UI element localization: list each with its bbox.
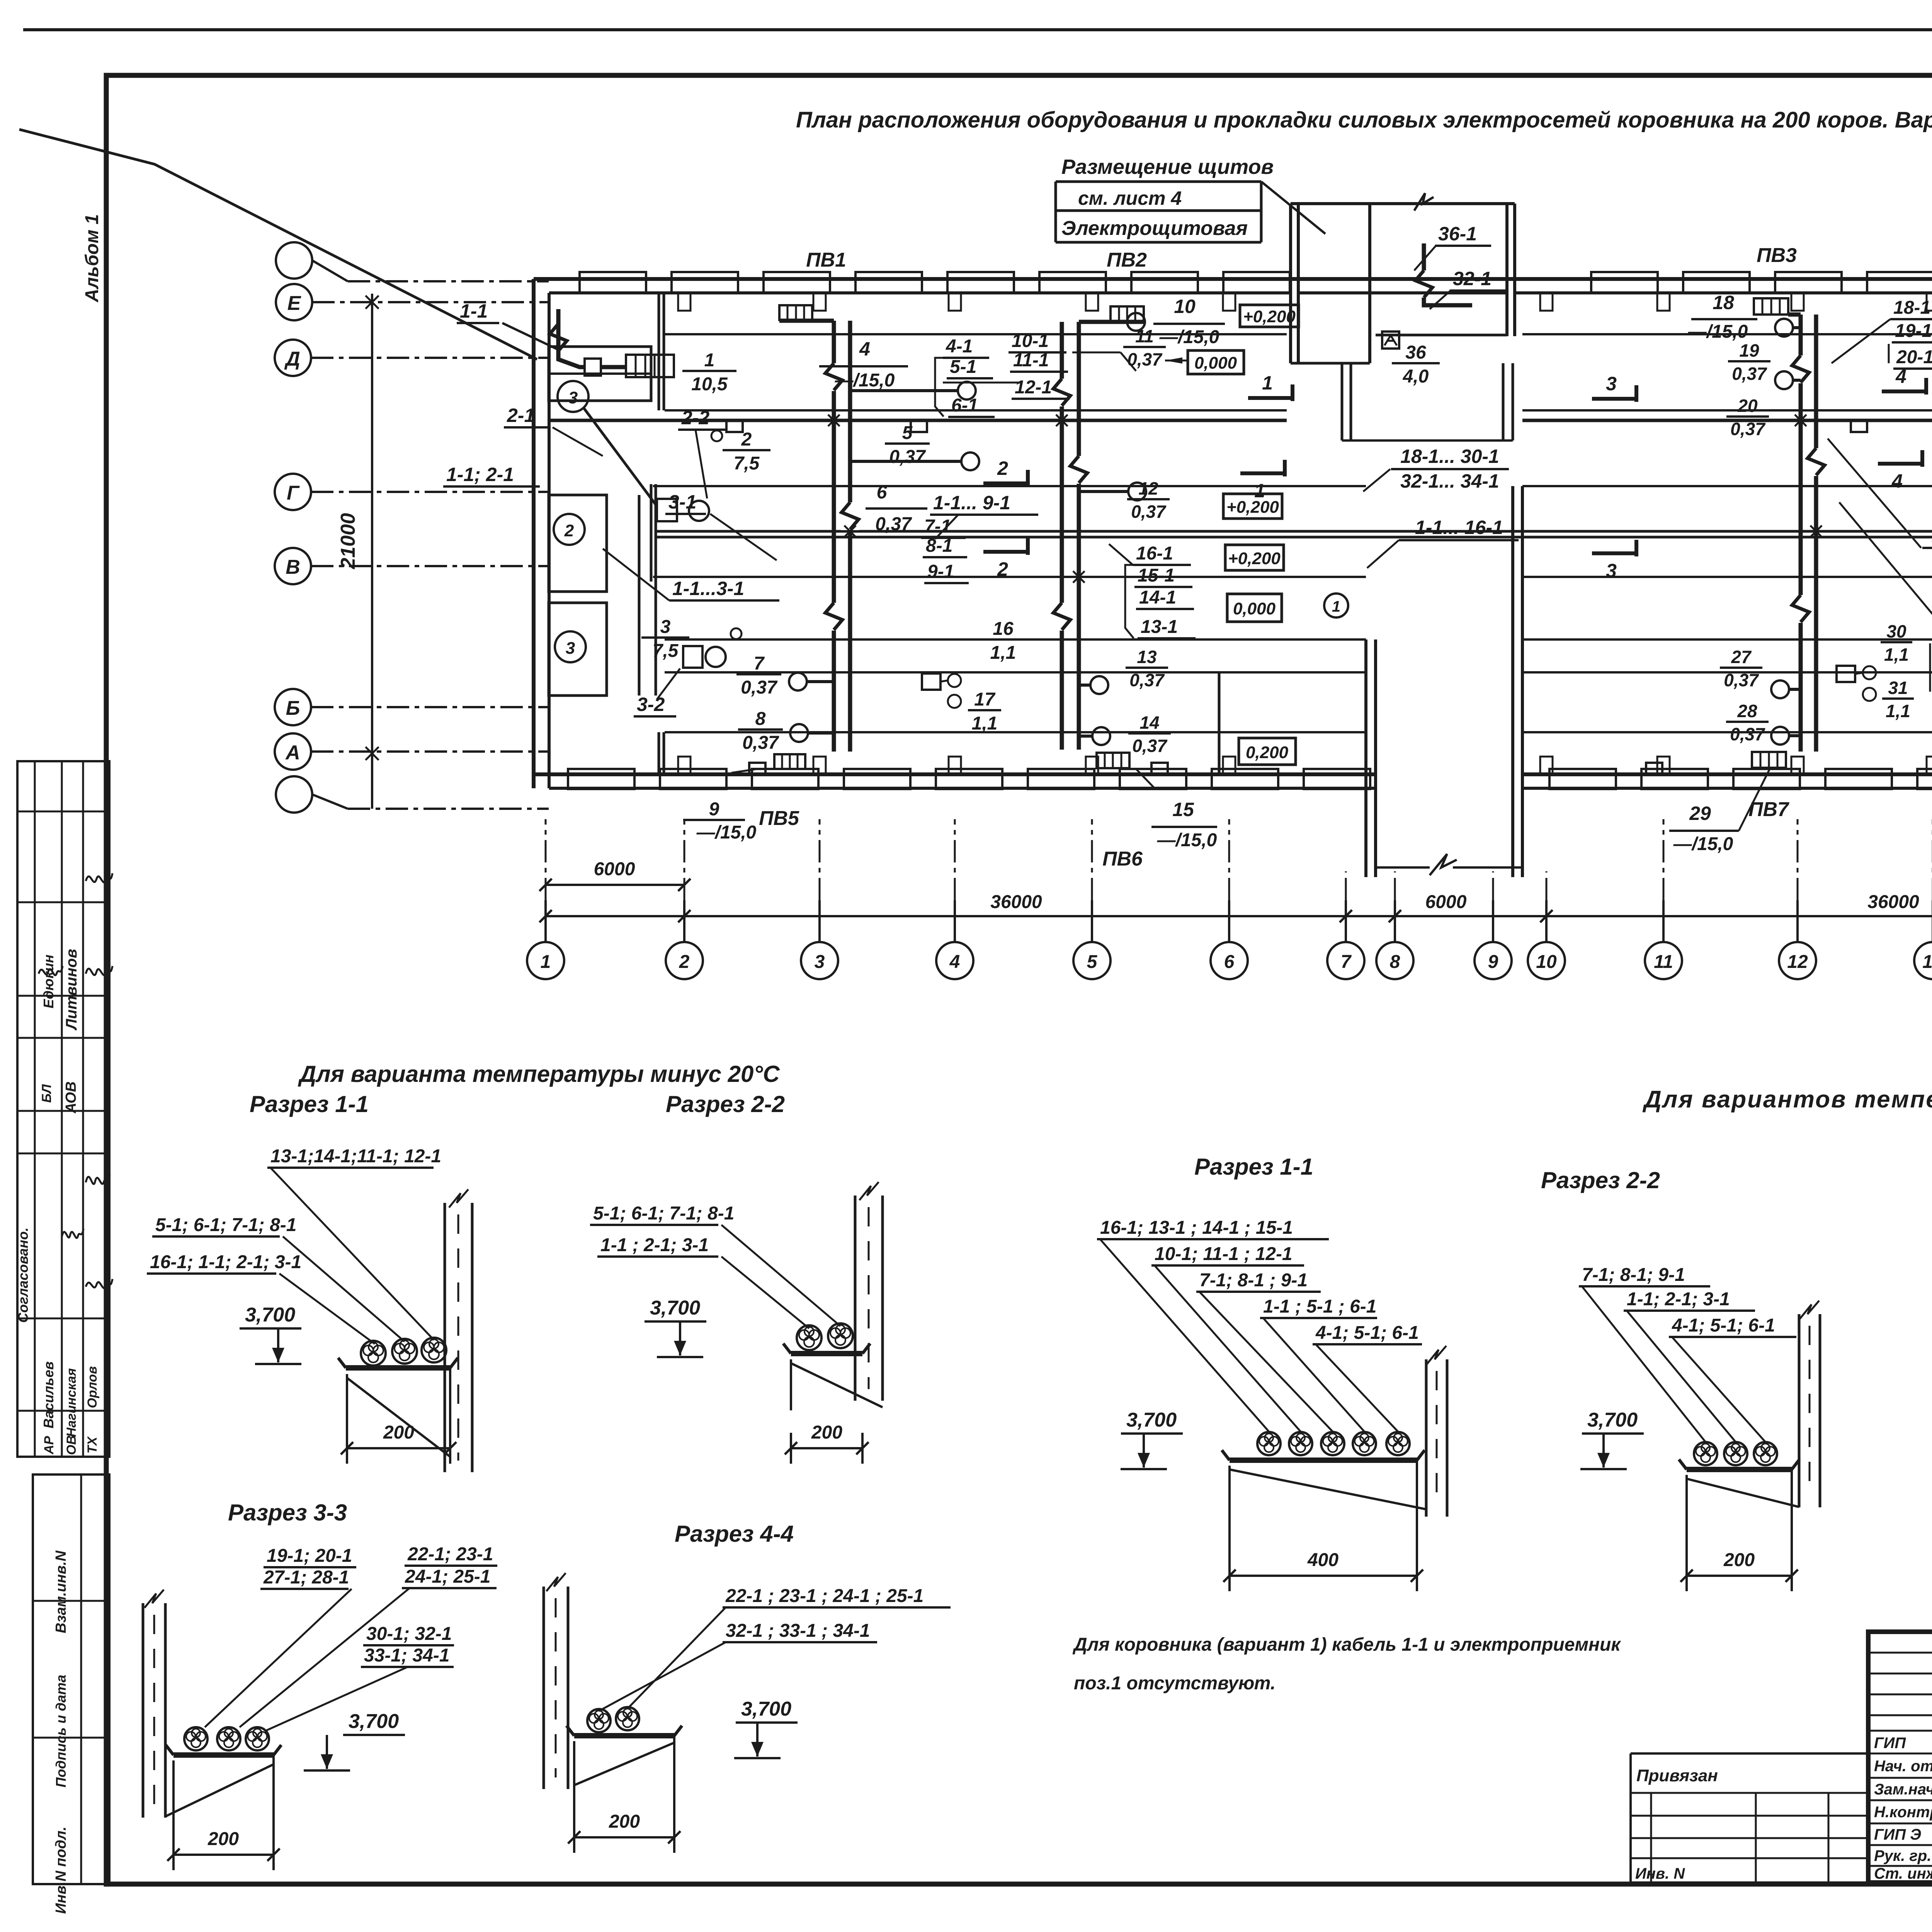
row axis bubbles <box>276 242 312 279</box>
section 1-1 left bracket outline <box>346 1374 348 1454</box>
svg-text:10,5: 10,5 <box>691 374 728 395</box>
svg-text:2: 2 <box>679 952 690 972</box>
svg-text:План расположения оборудовани: План расположения оборудования и проклад… <box>796 107 1932 133</box>
panel box PV5 <box>774 754 805 769</box>
motor 13 <box>1090 676 1108 694</box>
svg-text:15-1: 15-1 <box>1138 565 1175 586</box>
svg-text:1,1: 1,1 <box>1884 645 1909 665</box>
svg-text:Разрез 1-1: Разрез 1-1 <box>250 1091 369 1117</box>
svg-text:36000: 36000 <box>1867 892 1919 912</box>
interior line y1088 right barn <box>1522 419 1932 422</box>
svg-text:—/15,0: —/15,0 <box>835 370 895 391</box>
svg-text:Электрощитовая: Электрощитовая <box>1061 217 1248 240</box>
section 2-2 right bracket outline <box>1685 1475 1688 1576</box>
svg-text:ПВ6: ПВ6 <box>1102 848 1143 870</box>
section 1-1 right cable bundles <box>1257 1432 1281 1455</box>
panel box PV6 <box>1097 753 1129 768</box>
svg-text:—/15,0: —/15,0 <box>696 822 757 843</box>
interior stub wall x1705 bottom <box>658 732 660 774</box>
panel box PV2 <box>1111 306 1144 322</box>
svg-text:32-1: 32-1 <box>1453 268 1492 289</box>
svg-text:0,37: 0,37 <box>1724 670 1759 690</box>
dimension line 6000 first bay <box>546 884 684 886</box>
title block outer border <box>1868 1632 1932 1883</box>
svg-text:4,0: 4,0 <box>1403 366 1429 387</box>
incoming feeder line from left <box>19 129 537 359</box>
svg-text:200: 200 <box>207 1829 239 1849</box>
svg-text:7,5: 7,5 <box>734 453 760 474</box>
svg-text:2-1: 2-1 <box>507 405 535 426</box>
svg-text:Д: Д <box>284 348 300 370</box>
svg-text:поз.1 отсутствуют.: поз.1 отсутствуют. <box>1074 1673 1276 1694</box>
motor 5 <box>958 382 976 400</box>
svg-text:11-1: 11-1 <box>1013 350 1049 371</box>
svg-text:ПВ5: ПВ5 <box>759 807 799 830</box>
svg-text:Б: Б <box>286 697 300 719</box>
wall pilasters bottom <box>678 757 690 774</box>
svg-text:0,37: 0,37 <box>1131 502 1167 522</box>
svg-text:9: 9 <box>1488 952 1498 972</box>
svg-text:0,37: 0,37 <box>741 677 778 698</box>
panel box PV3 <box>1754 298 1788 315</box>
svg-text:6000: 6000 <box>594 859 635 879</box>
svg-text:3,700: 3,700 <box>349 1710 399 1733</box>
svg-text:200: 200 <box>383 1422 414 1443</box>
left vestibule structures <box>549 347 651 401</box>
interior line y1062 left barn <box>665 409 1287 412</box>
svg-text:1-1 ; 5-1 ; 6-1: 1-1 ; 5-1 ; 6-1 <box>1263 1296 1376 1317</box>
svg-text:Размещение щитов: Размещение щитов <box>1061 155 1274 179</box>
svg-text:В: В <box>286 556 300 578</box>
passage line with break <box>1376 866 1430 869</box>
svg-text:2: 2 <box>564 521 574 540</box>
middle feeder from electro room <box>1422 243 1426 270</box>
interior line y1895 <box>665 731 1366 733</box>
svg-text:19: 19 <box>1739 340 1759 361</box>
svg-text:5-1; 6-1; 7-1; 8-1: 5-1; 6-1; 7-1; 8-1 <box>593 1203 734 1224</box>
section 2-2 left bracket outline <box>790 1359 792 1410</box>
svg-text:1-1... 16-1: 1-1... 16-1 <box>1415 517 1503 538</box>
svg-text:0,000: 0,000 <box>1194 354 1237 372</box>
svg-text:12: 12 <box>1138 478 1158 498</box>
svg-text:8: 8 <box>755 709 766 729</box>
svg-text:А: А <box>285 742 300 764</box>
svg-text:1: 1 <box>1332 598 1340 615</box>
svg-text:7-1: 7-1 <box>924 516 951 537</box>
svg-text:31: 31 <box>1888 678 1908 698</box>
svg-text:0,37: 0,37 <box>1730 419 1766 439</box>
section 1-1 left dim 200 <box>347 1447 450 1449</box>
row axis line G <box>311 491 549 493</box>
section 4-4 left dim 200 <box>574 1836 674 1838</box>
svg-text:Н.контр.: Н.контр. <box>1874 1804 1932 1821</box>
column axis leader lines <box>544 900 547 942</box>
motor 6 <box>961 452 979 470</box>
svg-text:Нагинская: Нагинская <box>64 1368 79 1437</box>
panel box PV1 <box>779 305 812 320</box>
section 3-3 left bracket outline <box>172 1760 175 1861</box>
level box 0.200 low <box>1239 738 1296 765</box>
svg-text:3-1: 3-1 <box>668 491 696 513</box>
svg-text:5-1: 5-1 <box>950 357 976 377</box>
svg-text:см. лист 4: см. лист 4 <box>1078 187 1182 209</box>
svg-text:30-1; 32-1: 30-1; 32-1 <box>366 1624 452 1644</box>
svg-text:5-1; 6-1; 7-1; 8-1: 5-1; 6-1; 7-1; 8-1 <box>155 1215 296 1235</box>
svg-text:7: 7 <box>754 653 765 674</box>
svg-text:3,700: 3,700 <box>650 1297 700 1319</box>
svg-text:4: 4 <box>1891 470 1903 492</box>
interior line y1740 <box>665 671 1366 673</box>
svg-text:27: 27 <box>1731 647 1752 667</box>
svg-text:16-1: 16-1 <box>1136 543 1173 564</box>
svg-text:Е: Е <box>287 292 301 315</box>
section 1-1 left cable bundles <box>361 1341 386 1366</box>
svg-text:10-1; 11-1 ; 12-1: 10-1; 11-1 ; 12-1 <box>1155 1244 1293 1264</box>
section 2-2 left leaders <box>721 1225 840 1326</box>
svg-text:6000: 6000 <box>1425 892 1467 912</box>
svg-text:—/15,0: —/15,0 <box>1688 321 1748 342</box>
svg-text:ПВ7: ПВ7 <box>1748 798 1789 821</box>
svg-text:—/15,0: —/15,0 <box>1157 830 1217 850</box>
interior line y865 right barn <box>1522 333 1932 335</box>
svg-text:33-1; 34-1: 33-1; 34-1 <box>364 1645 449 1666</box>
svg-text:1-1... 9-1: 1-1... 9-1 <box>933 492 1010 514</box>
svg-text:+0,200: +0,200 <box>1226 498 1279 517</box>
svg-text:Согласовано.: Согласовано. <box>15 1228 31 1323</box>
svg-text:Разрез 1-1: Разрез 1-1 <box>1194 1154 1313 1180</box>
section mark 3 lower <box>1592 551 1636 555</box>
svg-text:2: 2 <box>997 558 1008 580</box>
section mark 3 upper <box>1592 397 1636 401</box>
svg-text:+0,200: +0,200 <box>1228 549 1281 568</box>
small circle near 3-2 <box>731 628 742 639</box>
svg-text:16-1; 1-1; 2-1; 3-1: 16-1; 1-1; 2-1; 3-1 <box>150 1252 301 1272</box>
device box row D <box>657 499 677 521</box>
svg-text:АР: АР <box>42 1436 56 1455</box>
stall band left wall <box>650 484 653 582</box>
central section upper walls <box>1341 363 1344 440</box>
svg-text:Подпись и дата: Подпись и дата <box>53 1675 69 1787</box>
svg-text:3,700: 3,700 <box>741 1698 791 1720</box>
svg-text:3-2: 3-2 <box>637 694 665 715</box>
svg-text:7,5: 7,5 <box>653 641 679 661</box>
svg-text:2: 2 <box>997 457 1008 479</box>
cable run left barn bay3 <box>832 321 836 752</box>
svg-text:1,1: 1,1 <box>972 713 998 734</box>
motor pair 16-17 with box <box>922 673 940 690</box>
svg-text:—/15,0: —/15,0 <box>1159 327 1219 347</box>
numbered circle 3 upper <box>558 381 588 412</box>
svg-text:3: 3 <box>660 617 671 637</box>
motor 3 circle <box>706 647 726 667</box>
cable run left barn bay5 <box>1060 322 1064 750</box>
svg-text:ПВ2: ПВ2 <box>1107 249 1147 271</box>
svg-text:36000: 36000 <box>990 892 1042 912</box>
svg-text:1,1: 1,1 <box>1886 701 1910 721</box>
svg-text:3,700: 3,700 <box>1587 1409 1638 1431</box>
svg-text:Зам.нач.: Зам.нач. <box>1874 1781 1932 1798</box>
section 1-1 right dim 400 <box>1230 1575 1417 1577</box>
interior line y1258 left barn <box>653 485 1366 487</box>
svg-text:19-1: 19-1 <box>1895 321 1932 341</box>
svg-text:Привязан: Привязан <box>1636 1766 1718 1785</box>
svg-text:1-1; 2-1: 1-1; 2-1 <box>446 464 514 485</box>
barn left wall <box>532 279 536 788</box>
svg-text:0,37: 0,37 <box>1127 349 1163 369</box>
interior line y865 left barn <box>665 333 1287 335</box>
svg-text:11: 11 <box>1654 952 1673 972</box>
svg-text:1: 1 <box>704 350 715 371</box>
svg-text:30: 30 <box>1886 621 1906 641</box>
svg-text:20: 20 <box>1737 396 1758 416</box>
vertical dimension 21000 <box>371 294 373 809</box>
row axis line V <box>311 565 549 567</box>
cable crossing marks <box>828 415 840 426</box>
svg-text:6: 6 <box>877 482 887 503</box>
section 1-1 left wall channel <box>444 1203 446 1472</box>
numbered circle 2 <box>554 514 585 545</box>
motor 12 <box>1128 483 1146 500</box>
section 1-1 right leaders <box>1100 1239 1269 1432</box>
svg-text:200: 200 <box>1723 1550 1755 1570</box>
motor 20 <box>1775 371 1793 389</box>
svg-text:8: 8 <box>1390 952 1400 972</box>
level box +0.200 upper <box>1240 305 1299 327</box>
cable run right barn bay12 <box>1799 315 1803 752</box>
svg-text:12-1: 12-1 <box>1015 377 1052 398</box>
svg-text:0,37: 0,37 <box>1730 724 1765 744</box>
section 3-3 left wall channel <box>142 1603 145 1818</box>
svg-text:Нач. отд.: Нач. отд. <box>1874 1758 1932 1775</box>
mid wall right barn left end <box>1511 486 1514 877</box>
svg-text:200: 200 <box>609 1811 640 1832</box>
row axis line bottom blank <box>312 794 348 809</box>
svg-text:ПВ1: ПВ1 <box>806 249 846 271</box>
svg-text:1: 1 <box>541 952 551 972</box>
svg-text:Едюкин: Едюкин <box>41 954 56 1009</box>
section 2-2 right dim 200 <box>1687 1575 1792 1577</box>
section 2-2 left wall channel <box>854 1196 857 1401</box>
column axis bubbles 1-16 <box>527 942 564 979</box>
svg-text:32-1... 34-1: 32-1... 34-1 <box>1400 470 1499 492</box>
section 3-3 left dim 200 <box>173 1854 274 1856</box>
interior line y1493 <box>653 576 1366 578</box>
interior line y1258 right barn <box>1522 485 1932 487</box>
svg-text:Г: Г <box>287 482 300 504</box>
svg-text:6: 6 <box>1224 952 1235 972</box>
svg-text:Рук. гр.: Рук. гр. <box>1874 1847 1931 1864</box>
svg-text:3: 3 <box>1606 560 1617 582</box>
motor connection stubs <box>850 389 958 392</box>
title block left rows <box>1868 1652 1932 1654</box>
main dimension chain <box>546 915 1932 917</box>
break mark on electro room top <box>1414 193 1434 211</box>
svg-text:9: 9 <box>709 799 719 820</box>
svg-text:3: 3 <box>815 952 825 972</box>
numbered circle 3 lower <box>555 631 586 662</box>
svg-text:Инв. N: Инв. N <box>1635 1865 1685 1882</box>
svg-text:8-1: 8-1 <box>926 536 952 556</box>
svg-text:ГИП: ГИП <box>1874 1735 1906 1752</box>
svg-text:16: 16 <box>993 619 1014 639</box>
motor 11 <box>1127 313 1145 331</box>
svg-text:20-1: 20-1 <box>1896 347 1932 367</box>
numbered circle 1 middle <box>1324 594 1348 617</box>
interior line y1062 right barn <box>1522 409 1932 412</box>
level box +0.200 mid1 <box>1223 494 1282 519</box>
svg-text:Для коровника (вариант 1) к: Для коровника (вариант 1) кабель 1-1 и э… <box>1072 1634 1621 1655</box>
stamp signature squiggles <box>86 873 112 883</box>
svg-text:Литвинов: Литвинов <box>63 949 80 1031</box>
svg-text:27-1; 28-1: 27-1; 28-1 <box>263 1567 349 1588</box>
svg-text:19-1; 20-1: 19-1; 20-1 <box>267 1546 352 1566</box>
svg-text:9-1: 9-1 <box>927 561 954 582</box>
svg-text:18-1... 30-1: 18-1... 30-1 <box>1400 446 1499 467</box>
barn top wall <box>534 277 1932 281</box>
svg-text:7: 7 <box>1341 952 1352 972</box>
svg-text:400: 400 <box>1307 1550 1338 1570</box>
motor 28 <box>1771 727 1789 745</box>
barn bottom wall right part <box>1522 772 1932 776</box>
svg-text:4-1; 5-1; 6-1: 4-1; 5-1; 6-1 <box>1315 1323 1419 1343</box>
lower partition wall left barn <box>1218 672 1221 774</box>
svg-text:17: 17 <box>974 689 996 710</box>
panel box PV7 <box>1752 752 1786 768</box>
callout box sm list 4 / electroshchitovaya <box>1056 180 1261 183</box>
section 2-2 right leaders <box>1582 1286 1706 1442</box>
svg-text:Инв.N подл.: Инв.N подл. <box>53 1827 69 1914</box>
section mark 1 lower <box>1240 471 1285 475</box>
svg-text:3: 3 <box>568 388 578 407</box>
section 1-1 right tray <box>1230 1458 1417 1463</box>
svg-text:1-1: 1-1 <box>460 300 488 322</box>
interior stub wall x1705-1718 top <box>658 293 660 410</box>
svg-text:29: 29 <box>1689 803 1711 824</box>
svg-text:3: 3 <box>566 639 575 658</box>
svg-text:13: 13 <box>1137 647 1157 667</box>
svg-text:1-1 ; 2-1; 3-1: 1-1 ; 2-1; 3-1 <box>600 1235 709 1255</box>
svg-text:1: 1 <box>1254 480 1265 502</box>
motor pair 30-31 with box <box>1837 666 1855 682</box>
svg-text:0,37: 0,37 <box>889 447 926 467</box>
section 2-2 right wall channel <box>1798 1314 1801 1507</box>
section 3-3 left leaders <box>205 1589 352 1727</box>
svg-text:БЛ: БЛ <box>39 1084 54 1102</box>
svg-text:Орлов: Орлов <box>85 1366 100 1408</box>
svg-text:Разрез 2-2: Разрез 2-2 <box>666 1091 785 1117</box>
section 4-4 left tray <box>574 1733 674 1738</box>
section mark 4 upper <box>1882 389 1926 393</box>
svg-text:21000: 21000 <box>337 513 359 570</box>
svg-text:0,000: 0,000 <box>1233 599 1276 618</box>
svg-text:Взам.инв.N: Взам.инв.N <box>53 1550 69 1633</box>
row axis line top blank <box>312 260 348 281</box>
svg-text:Для варианта температуры м: Для варианта температуры минус 20°С <box>298 1061 780 1087</box>
svg-text:10: 10 <box>1536 952 1557 972</box>
svg-text:ТХ: ТХ <box>85 1436 100 1454</box>
svg-text:22-1 ; 23-1 ; 24-1 ; 25-1: 22-1 ; 23-1 ; 24-1 ; 25-1 <box>725 1586 923 1606</box>
svg-text:3,700: 3,700 <box>1126 1409 1177 1431</box>
svg-text:6-1: 6-1 <box>951 395 978 416</box>
svg-text:—/15,0: —/15,0 <box>1673 834 1733 854</box>
mid wall left barn right end <box>1364 639 1367 877</box>
svg-text:+0,200: +0,200 <box>1243 307 1296 326</box>
svg-text:Разрез 2-2: Разрез 2-2 <box>1541 1167 1660 1193</box>
svg-text:4: 4 <box>859 338 870 360</box>
motor 14 <box>1092 727 1110 745</box>
section 4-4 left leaders <box>628 1607 726 1709</box>
svg-text:3,700: 3,700 <box>245 1304 295 1326</box>
svg-text:22-1; 23-1: 22-1; 23-1 <box>407 1544 493 1565</box>
row axis line D <box>311 357 549 359</box>
svg-text:16-1; 13-1 ; 14-1 ; 15-1: 16-1; 13-1 ; 14-1 ; 15-1 <box>1100 1218 1293 1238</box>
svg-text:0,37: 0,37 <box>1129 670 1165 690</box>
section 1-1 right bracket outline <box>1228 1466 1231 1580</box>
svg-text:36: 36 <box>1405 342 1426 363</box>
svg-text:13-1: 13-1 <box>1141 617 1178 637</box>
svg-text:10: 10 <box>1174 296 1196 317</box>
svg-text:4-1: 4-1 <box>946 336 973 357</box>
svg-text:4: 4 <box>949 952 960 972</box>
section 2-2 left dim 200 <box>791 1447 862 1449</box>
svg-text:0,200: 0,200 <box>1246 743 1289 762</box>
section 2-2 right cable bundles <box>1694 1442 1717 1465</box>
svg-text:Разрез 4-4: Разрез 4-4 <box>675 1521 794 1547</box>
svg-text:7-1; 8-1 ; 9-1: 7-1; 8-1 ; 9-1 <box>1199 1270 1308 1291</box>
sheet top edge line <box>23 28 1932 31</box>
feeder entry devices 1/10.5 <box>585 359 601 376</box>
svg-text:Васильев: Васильев <box>41 1361 56 1429</box>
svg-text:ГИП Э: ГИП Э <box>1874 1826 1921 1843</box>
interior line y1655 <box>665 638 1366 641</box>
small circle near 2-2 <box>711 430 722 441</box>
svg-text:13-1;14-1;11-1; 12-1: 13-1;14-1;11-1; 12-1 <box>270 1146 441 1167</box>
svg-text:2-2: 2-2 <box>681 407 709 429</box>
section 2-2 left tray <box>791 1351 862 1356</box>
wall pilasters top <box>678 293 690 311</box>
svg-text:1-1; 2-1; 3-1: 1-1; 2-1; 3-1 <box>1627 1289 1730 1310</box>
electro room bottom lines <box>1291 362 1370 365</box>
motor 2 circle <box>689 501 709 521</box>
svg-text:200: 200 <box>811 1422 842 1443</box>
section 4-4 left cable bundles <box>587 1709 611 1732</box>
svg-text:3: 3 <box>1606 373 1617 395</box>
svg-text:10-1: 10-1 <box>1012 331 1049 351</box>
svg-text:28: 28 <box>1737 701 1757 721</box>
svg-text:18-1: 18-1 <box>1893 298 1930 318</box>
section 1-1 right wall channel <box>1425 1359 1428 1517</box>
section 2-2 right tray <box>1687 1467 1792 1472</box>
svg-text:36-1: 36-1 <box>1438 223 1477 245</box>
svg-text:0,37: 0,37 <box>1732 364 1767 384</box>
section 2-2 left cable bundles <box>797 1325 821 1350</box>
exhaust symbol box <box>1382 332 1399 349</box>
svg-text:14-1: 14-1 <box>1139 587 1176 608</box>
svg-text:АОВ: АОВ <box>63 1082 79 1114</box>
section mark 2 upper <box>983 481 1028 485</box>
feed table lines y1375-1390 <box>656 530 1932 533</box>
svg-text:7-1; 8-1; 9-1: 7-1; 8-1; 9-1 <box>1582 1265 1685 1285</box>
svg-text:32-1 ; 33-1 ; 34-1: 32-1 ; 33-1 ; 34-1 <box>726 1621 870 1641</box>
svg-text:5: 5 <box>1087 952 1098 972</box>
svg-text:0,37: 0,37 <box>742 733 779 753</box>
motor 8 <box>790 724 808 742</box>
svg-text:2: 2 <box>741 429 752 450</box>
section 4-4 left bracket outline <box>573 1741 575 1842</box>
section 1-1 left tray <box>346 1365 450 1371</box>
section mark 2 lower <box>983 550 1028 554</box>
row axis line A <box>311 750 549 753</box>
